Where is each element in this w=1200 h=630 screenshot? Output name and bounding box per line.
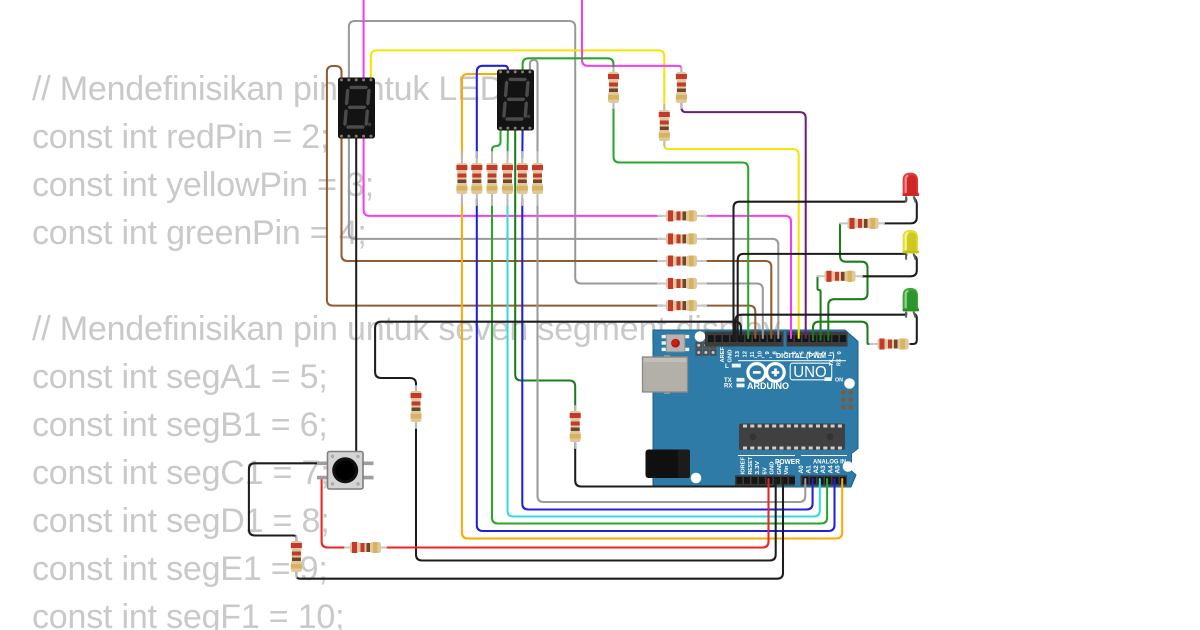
resistor RY (yellow LED) bbox=[818, 271, 863, 282]
wire: display1 bottom pin1 brown to R3 left bbox=[342, 136, 663, 261]
svg-text:A3: A3 bbox=[820, 465, 827, 474]
wire: resistor RB bottom yellow to digital pin 6 bbox=[664, 141, 798, 338]
svg-text:0: 0 bbox=[837, 351, 843, 354]
wire: resistor RP1 bottom black to power GND1 bbox=[416, 423, 776, 561]
column resistor C5 bbox=[517, 152, 528, 205]
digital pin labels bbox=[720, 347, 843, 363]
resistor RD (display2 common, x=575.2) bbox=[570, 406, 581, 448]
svg-text:Vin: Vin bbox=[784, 465, 790, 474]
wire: resistor RY left green to digital pin 3 bbox=[818, 276, 821, 340]
wire: display2 top pin5 gray to column resistor C6 bbox=[530, 60, 538, 158]
wire: column C5 blue to analog A1 bbox=[522, 199, 812, 510]
analog header block bbox=[801, 475, 848, 485]
svg-text:7: 7 bbox=[784, 351, 790, 354]
PWM tilde marks bbox=[754, 355, 822, 361]
svg-text:2: 2 bbox=[822, 351, 828, 354]
barrel jack bbox=[646, 450, 691, 479]
wire: pushbutton bottom-left pin red to resistor RP3 left bbox=[322, 478, 345, 548]
wire: column C4 cyan to analog A2 bbox=[508, 199, 820, 517]
svg-text:IOREF: IOREF bbox=[741, 457, 747, 475]
seven-segment display DISP1 bbox=[338, 78, 375, 139]
digital header block left (AREF..8) bbox=[705, 332, 784, 347]
wire: green LED cathode black to GND area bbox=[736, 314, 907, 341]
wire: column C6 gray to analog A0 bbox=[538, 199, 806, 502]
column resistor C2 bbox=[471, 152, 482, 205]
resistor RA (magenta/purple net, x=681.4) bbox=[676, 68, 687, 108]
svg-text:~: ~ bbox=[769, 355, 772, 361]
seven-segment display DISP2 bbox=[497, 70, 534, 131]
analog pin labels bbox=[798, 465, 842, 474]
power header block bbox=[735, 475, 795, 485]
wire: column C1 orange to analog A5 bbox=[462, 199, 842, 539]
wire: pushbutton top-left pin black to resistor RP2 top bbox=[249, 463, 327, 541]
column resistor C6 bbox=[532, 152, 543, 205]
svg-text:GND: GND bbox=[777, 462, 783, 475]
wire: red LED cathode black to GND bbox=[734, 198, 907, 340]
TX1 RX0 tiny labels bbox=[829, 358, 843, 366]
UNO label with box bbox=[790, 363, 832, 380]
wire: R3 right brown to digital pin 9 bbox=[702, 261, 771, 338]
ICSP header right 3x2 bbox=[841, 390, 853, 410]
resistor RC (green net, x=613.5) bbox=[608, 68, 619, 108]
wire: yellow LED cathode black to digital pin 13 area bbox=[738, 254, 907, 340]
USB connector bbox=[643, 355, 688, 394]
Arduino infinity logo bbox=[748, 364, 784, 382]
resistor R3 (row3, brown net) bbox=[658, 256, 706, 267]
wire: display1 top pin5 yellow to resistor RB top bbox=[371, 50, 664, 110]
pushbutton SW1 bbox=[317, 452, 374, 490]
wire: resistor RC bottom green to digital pin 12 bbox=[614, 103, 749, 338]
ATmega328 chip bbox=[739, 424, 845, 451]
wire: red LED anode black to resistor RL right bbox=[884, 198, 917, 223]
wire: display2 top pin4 green to resistor RC top bbox=[523, 58, 614, 72]
svg-text:AREF: AREF bbox=[720, 347, 726, 363]
digital header block right (7..0) bbox=[787, 332, 848, 347]
resistor R5 (row5, brown net) bbox=[658, 300, 706, 311]
svg-text:13: 13 bbox=[735, 350, 741, 357]
svg-text:GND: GND bbox=[770, 462, 776, 475]
wire: column C2 blue to analog A4 bbox=[477, 199, 835, 531]
wire: resistor RA bottom purple to digital pin 5 bbox=[681, 103, 805, 338]
wire: display2 bottom pin4 blue to column resistor C5 bbox=[521, 128, 523, 158]
resistor R2 (row2, gray net) bbox=[658, 233, 706, 244]
wire: resistor RP2 bottom black to power GND2 bbox=[296, 479, 783, 579]
wire: resistor RG left green to digital pin 4 bbox=[813, 322, 870, 344]
ON LED bbox=[825, 377, 832, 381]
wire: display2 bottom pin1 green to column resistor C3 bbox=[492, 128, 501, 158]
mounting holes bbox=[695, 331, 706, 342]
LED green (greenPin) bbox=[903, 288, 920, 318]
svg-text:TX: TX bbox=[829, 359, 835, 366]
wire: display2 bottom pin2 green to column resistor C4 bbox=[506, 128, 508, 158]
resistor RB (yellow net, x=664.3) bbox=[659, 105, 670, 146]
reset button bbox=[662, 335, 690, 352]
resistor RP3 (button to 5V) bbox=[345, 542, 386, 553]
svg-text:UNO: UNO bbox=[793, 364, 827, 381]
wire: green LED anode black to resistor RG right bbox=[909, 314, 917, 345]
wire: display1 bottom pin2 gray to R2 left bbox=[349, 136, 662, 239]
wire: R4 right gray to digital pin 10 bbox=[702, 284, 763, 339]
svg-text:A5: A5 bbox=[835, 465, 842, 474]
svg-text:~: ~ bbox=[754, 355, 757, 361]
POWER / ANALOG IN labels bbox=[738, 455, 795, 456]
ICSP header top-left 2x3 bbox=[695, 342, 716, 356]
column resistor C1 bbox=[456, 152, 467, 205]
resistor RP2 (button to GND2, x=296.4) bbox=[291, 536, 302, 577]
svg-text:3.3V: 3.3V bbox=[755, 461, 761, 475]
wire: resistor RP3 right red to power 5V bbox=[386, 479, 769, 548]
svg-text:A4: A4 bbox=[827, 465, 834, 474]
wire: column C3 green to analog A3 bbox=[492, 199, 827, 524]
wire: resistor RL left green zigzag to digital pin 2 bbox=[828, 223, 867, 340]
background source-code text bbox=[32, 65, 780, 630]
wire: display1 bottom pin4 magenta to R1 left bbox=[364, 136, 662, 216]
LED yellow (yellowPin) bbox=[903, 230, 920, 260]
svg-text:~: ~ bbox=[796, 355, 799, 361]
power pin labels bbox=[741, 457, 791, 475]
wire: display1 top pin2 long gray to R4 left bbox=[349, 21, 662, 284]
resistor RG (green LED) bbox=[870, 339, 909, 350]
svg-text:~: ~ bbox=[762, 355, 765, 361]
resistor R4 (row4, gray net) bbox=[658, 278, 706, 289]
wire: display2 top pin1 orange to column resistor C1 bbox=[462, 73, 501, 159]
svg-text:5V: 5V bbox=[762, 467, 768, 474]
wire: yellow LED anode black to resistor RY right bbox=[862, 256, 917, 277]
wire: R5 right brown to digital pin 11 bbox=[702, 306, 755, 338]
svg-text:A1: A1 bbox=[806, 465, 813, 474]
wire: display2 bottom pin3 dark-green to resistor RD top bbox=[515, 128, 575, 410]
svg-text:~: ~ bbox=[804, 355, 807, 361]
svg-text:RX: RX bbox=[836, 358, 842, 366]
svg-text:ARDUINO: ARDUINO bbox=[747, 381, 789, 391]
column resistor C4 bbox=[502, 152, 513, 205]
svg-text:A0: A0 bbox=[798, 465, 805, 474]
wire: R1 right magenta to digital pin 7 bbox=[702, 216, 791, 338]
Arduino UNO board U1 bbox=[643, 330, 859, 487]
svg-text:~: ~ bbox=[819, 355, 822, 361]
svg-text:12: 12 bbox=[742, 351, 748, 357]
wire: resistor RD bottom black to power GND1 bbox=[575, 443, 776, 487]
svg-text:ANALOG IN: ANALOG IN bbox=[813, 459, 846, 466]
wire: magenta from canvas top to resistor RA top bbox=[582, 0, 681, 72]
svg-text:L: L bbox=[725, 363, 729, 370]
wire: display1 top pin1 to R5 left (brown) bbox=[327, 66, 662, 306]
resistor R1 (row1, magenta net) bbox=[658, 210, 706, 221]
svg-text:A2: A2 bbox=[813, 465, 820, 474]
svg-text:ON: ON bbox=[835, 377, 843, 383]
svg-text:RX: RX bbox=[724, 384, 732, 390]
wire: display2 top pin2 blue to column resistor C2 bbox=[477, 66, 508, 158]
resistor RL (red LED) bbox=[840, 218, 884, 229]
board PCB bbox=[653, 330, 858, 487]
svg-text:GND: GND bbox=[727, 350, 733, 363]
resistor RP1 (button pulldown, x=416) bbox=[411, 386, 422, 428]
wire: digital pin 13 black to pushbutton pulldown resistor RP1 top bbox=[375, 322, 741, 390]
column resistor C3 bbox=[487, 152, 498, 205]
LED red (redPin) bbox=[903, 173, 920, 203]
svg-text:RESET: RESET bbox=[748, 457, 754, 475]
wire: display1 top pin4 magenta from canvas top bbox=[363, 0, 365, 80]
wire: display1 bottom pin3 black to pushbutton top-right pin bbox=[356, 136, 366, 463]
wire: R2 right gray to digital pin 8 bbox=[702, 239, 778, 338]
